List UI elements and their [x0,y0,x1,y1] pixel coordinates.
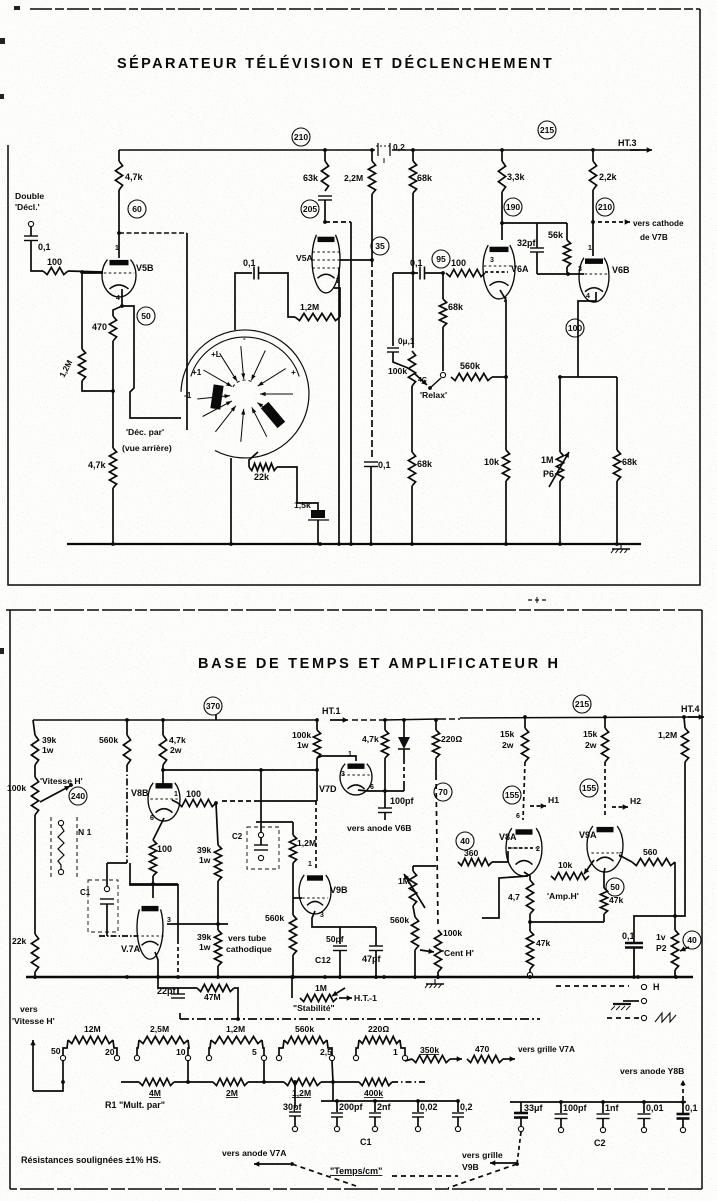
wire 4,7k down [384,758,386,791]
node cathode V5B [120,304,124,308]
label C1 bank [360,1137,372,1147]
wire V7A cathode to rail [155,952,158,977]
triode V7D [319,764,372,795]
wire 33uf stem [520,1102,522,1112]
resistor 10k cathode V6A [484,450,510,481]
pin 1 V8B [174,791,178,798]
wire V7D plate to 100k [317,756,356,761]
pin 6 V8A [516,813,520,820]
node 40 right [683,931,701,949]
diode crystal [398,737,410,749]
contact 0,2 [455,1126,460,1131]
wire 1,2M right leg [262,1040,264,1055]
junction ground rail x320 [318,542,322,546]
node 70 [434,783,452,801]
wire vers cathode V7B [598,219,630,224]
node 1nf C2 [601,1100,605,1104]
resistor 39k 1w left [31,735,56,765]
resistor 1,2M cathode V5A [295,302,340,321]
wire 47k to rail [529,969,531,973]
wire rail to 15k left [524,717,526,728]
wire to coupling cap [393,272,418,274]
wire 100 to anode V7A [152,876,154,898]
contact 10 mult [185,1055,190,1060]
label contact 1 [393,1047,398,1057]
label cathodique [226,944,272,954]
node grid V5B [80,270,84,274]
wire long vertical x351 [350,222,352,544]
label HT.3 [618,138,637,148]
pin 1 V6B [588,245,592,252]
triode V8B [131,783,180,821]
wire 4,7 to node [529,914,531,922]
wire long vertical x339 [338,268,340,544]
resistor 56k [548,230,571,267]
wire anode V8B line right [163,769,317,771]
wire 33uf to wiper [517,1132,521,1164]
wire 200pf stem [336,1101,338,1112]
arrow vers anode V8B [680,1080,685,1100]
wire ground rail panel 2 [26,976,693,979]
wire 200pf down [336,1117,338,1126]
capacitor 0,02 [412,1102,438,1117]
wire cathode to switch [122,306,181,418]
wire anode line V7A [129,883,178,885]
wire P6 to rail [559,481,561,544]
rotary switch contact bar bottom [261,402,285,428]
pin 3 V9B [320,912,324,919]
wire 47pf stem [375,927,377,946]
wire to C1 contact [106,863,108,886]
node rail 4,7k diode [383,718,387,722]
label vers grille V7A [518,1045,575,1054]
wire 100pf stub [384,813,386,821]
note resistances [21,1155,161,1165]
label H2 [630,796,641,806]
node 210 top [292,128,310,146]
node 35 [371,237,389,255]
wire 560k to anode line [130,863,178,885]
wire 360 to grid [492,851,508,862]
pin 3 V7A [167,917,171,924]
wire C2 1,2M top [256,821,293,823]
resistor 1,2M right [658,728,689,762]
contact open mult [134,1055,139,1060]
arrow HT.1 [330,717,348,722]
resistor 68k lower left-middle [408,452,433,486]
contact C1 [104,886,109,891]
wire diode column [403,720,405,737]
wire C1 down [106,904,108,936]
wire V9A cath to 47k [603,872,605,888]
wire cathode to 100pf [384,791,386,808]
wiper 10k [584,860,594,874]
wire 560k mid to rail [414,950,416,979]
capacitor 32pf [517,238,544,252]
label contact 20 [105,1047,115,1057]
wire grid to 560 [619,855,632,862]
wire 47k stub [529,922,531,931]
label C2 bank [594,1138,606,1148]
triode V8A [499,828,542,876]
resistor 4,7 cathode V8A [508,880,534,914]
label H1 [548,795,559,805]
capacitor 22pf [157,986,185,998]
wire 220 down [435,758,437,775]
pin 3 V6B [578,266,582,273]
label contact 50 [51,1046,61,1056]
wire cap to R1,2M horizontal [259,273,296,317]
arrow vers grille V9B [490,1160,517,1165]
node anode line right [315,768,319,772]
label Décl. [15,202,40,212]
junction ground rail x617 [615,542,619,546]
wire 0,2 down [457,1117,459,1126]
potentiometer 100k Relax [388,351,416,386]
wire 68k right top [616,377,618,450]
contact 1 mult [402,1055,407,1060]
switch position label +L [211,350,221,359]
wire 2nf down [374,1117,376,1126]
resistor 47k left [526,931,550,969]
wire 0,01 stem C2 [643,1102,645,1113]
wire 22pf stem [177,988,179,994]
node 50 branch [61,1080,65,1084]
wire 560k to rail2 [292,955,294,979]
node chain 3 [331,1080,335,1084]
node rail 2,2M [370,148,374,152]
resistor 68k upper middle [409,161,433,193]
potentiometer 1M [398,871,417,906]
label 4C wiper [418,377,427,384]
wire R1,2M to cathode column [82,381,113,391]
wire 0,01 down C2 [643,1119,645,1128]
resistor 4,7k 2w [159,735,186,765]
contact 5 mult [261,1055,266,1060]
wire grid node down dashed [371,260,373,458]
junction rail2 x35 [33,975,37,979]
contact 1nf C2 [600,1127,605,1132]
junction rail2 x325 [323,975,327,979]
wire 560k down [126,765,128,863]
label H terminal [653,982,660,992]
contact C2 top [258,832,263,837]
label vers cathode [633,219,684,228]
node 0,2 bus [456,1099,460,1103]
resistor 560k V9B [265,913,297,955]
wire 220Ω right leg [400,1040,405,1055]
wire relax wiper arm [430,378,441,388]
contact 200pf [334,1126,339,1131]
node rail diode [402,718,406,722]
node P6 top [558,375,562,379]
node 210 right [596,198,614,216]
wire 1nf down C2 [602,1119,604,1128]
wire rail to 15k right [604,717,606,728]
node 95 [441,271,445,275]
wire input terminal to cap [30,227,32,236]
node 0,1 C2 [681,1100,685,1104]
resistor 470 cathode V5B [92,316,117,341]
node P2 top [673,914,677,918]
junction rail2 x676 [674,975,678,979]
capacitor 2nf [369,1102,392,1117]
wire rail corner left [33,720,35,735]
wire chain start [121,1081,139,1083]
wiper 1M [404,874,425,908]
node anode V7A [151,882,155,886]
wire rail to R3,3k [501,150,503,161]
wire 30pf down [294,1116,296,1126]
wire 2nf stem [374,1101,376,1112]
node 215 [538,121,556,139]
node anode V5A [323,220,327,224]
wire 560k to cathode column [492,376,506,378]
rotary switch Déclenchement outer arcs [181,330,309,458]
node 30pf [293,1080,297,1084]
wire V6B cathode [578,292,596,377]
node rail 100k1w [315,718,319,722]
rotary switch contact bar left [210,384,223,409]
wire 68k to rail [411,486,413,544]
resistor 4,7k lower left [88,448,117,488]
node 0,1 rail [632,975,636,979]
wire rail to 560k [126,720,128,735]
node anode branch [259,768,263,772]
junction rail2 x293 [291,975,295,979]
resistor 560k relax [451,361,492,381]
resistor 68k relax branch [439,299,464,327]
wiper relax [428,386,432,390]
triode V9B [299,875,348,914]
capacitor 1nf C2 [597,1103,620,1119]
wire 47k right to bus [603,914,605,922]
wire rail to R2,2k [592,150,594,161]
pin 3 V7D [341,771,345,778]
capacitor 0,1 coupling V6A [410,258,425,280]
wire 0,02 down [417,1117,419,1126]
wire 39k to rail [217,966,219,977]
wire terminal 2 [623,1000,639,1002]
node anode V6A [500,221,504,225]
junction ground rail x351 [349,542,353,546]
node 95 circle [432,250,450,268]
label Vitesse H [40,776,83,786]
resistor 470 vers V7A [467,1044,503,1063]
wire 2,5 contact leg [332,1061,333,1082]
node rail 560k [125,718,129,722]
node 39k junction [216,922,220,926]
junction ground rail x231 [229,542,233,546]
wire grid link dashed [222,800,258,802]
wire 1,2M to 560k [292,863,294,915]
node 200pf bus [335,1099,339,1103]
capacitor 0,2 [452,1102,473,1117]
wire HT rail panel 1 [119,149,375,151]
pin 7 V5A [336,278,340,285]
wire V5B grid left [82,272,103,274]
node 47M HT-1 [236,1017,240,1021]
wire 100grid down [216,803,218,845]
resistor 4,7k V7D [362,730,389,758]
terminal input [28,221,33,226]
wire 1M top [413,865,436,867]
wire 15k to plate dashed [523,762,525,820]
wire R1,2M to V5A cathode [334,288,340,317]
wire HT.3 arrow [630,147,652,152]
arrow HT-1 [339,995,352,1000]
resistor 47M [197,984,234,1002]
wire 100pf stem C2 [560,1102,562,1113]
wire 39k to node [217,881,219,924]
pentode V5A [296,235,340,293]
node 50 [137,307,155,325]
wire temps dash 2 [448,1164,517,1188]
resistor 68k right [613,450,638,481]
wire HT-1 line [180,1018,540,1020]
pin 4 V6B [586,293,590,300]
node rail 220 [434,718,438,722]
wire HT-1 left tick [179,1013,181,1019]
wire chain 3 [321,1081,359,1083]
node chain 1 [186,1080,190,1084]
junction ground rail x506 [504,542,508,546]
wire 5 contact leg [263,1061,265,1082]
ground symbol panel 1 [611,544,630,553]
capacitor 33uf [514,1103,544,1118]
wire anode to 32pf [536,223,538,248]
wire 50 contact down [33,1061,63,1091]
node 240 [69,787,87,805]
resistor 3,3k anode V6A [498,161,525,192]
capacitor 0,1 output [622,931,643,948]
label vers anode V7A [222,1148,286,1158]
arrow vers anode V7A [254,1161,290,1166]
pin 1 V9B [308,861,312,868]
wiper dot vitesse [69,783,73,787]
potentiometer 1M stabilise [300,983,337,1002]
wire temps dash 1 [292,1164,356,1186]
resistor 2,2M [344,161,376,194]
wire 33uf down [520,1118,522,1127]
potentiometer 10k [551,860,589,880]
junction rail2 x178 [176,975,180,979]
label vue arrière [122,443,172,453]
wire 68k mid col down [442,273,444,299]
label vers anode V8B [620,1066,684,1076]
value 1,2M grid V5B [58,358,75,378]
switch position label + [291,368,296,377]
node grid V5A [370,258,374,262]
node cathode V7D [383,789,387,793]
node 40 left [456,832,474,850]
triode V7A [121,906,164,959]
wire 0u1 to pot [393,352,408,368]
junction rail2 x376 [374,975,378,979]
node 370 [204,697,222,715]
wire cap 0,1 to rail [370,467,372,545]
resistor 12M mult [68,1024,113,1044]
node 60 [128,200,146,218]
node 155 left [503,786,521,804]
wire switch to 22k [249,452,258,467]
junction rail2 x438 [436,975,440,979]
contact 2nf [372,1126,377,1131]
node anode V6B tap [591,220,595,224]
contact 20 mult [114,1055,119,1060]
wire rail to R63k [324,150,326,161]
wire R470 down [112,341,114,448]
wire C12 stem [339,927,341,944]
node 50 p2 [606,878,624,896]
label Double [15,191,44,201]
label vitesse H 2 [12,1016,55,1026]
wire 220 down dashed [436,775,438,925]
resistor 39k 1w lower [197,930,222,966]
capacitor 30pf [283,1102,303,1116]
wire 1 contact [405,1059,412,1061]
wire rail to 4,7k 2w [162,720,164,735]
wire V8B cathode down [153,818,164,840]
resistor 220 ohm [432,730,462,758]
wire 370 stem [215,715,217,720]
triode V6B [579,258,630,302]
ground symbol panel 2 [425,979,444,988]
wire V9B grid [293,897,302,899]
wire 100pf down C2 [560,1119,562,1128]
wire cathode bus [560,376,617,378]
switch position label - [243,334,246,343]
label V9B [462,1162,479,1172]
pin 2 V8A [536,846,540,853]
resistor 22k panel2 [12,934,39,972]
resistor 350k [412,1045,450,1063]
label 0u1 [398,337,415,346]
node anode V5B [117,231,121,235]
wire 47pf to rail [375,951,377,980]
triode V9A [579,826,623,872]
wire V9A cathode [604,868,605,872]
pin 3 V6A [490,257,494,264]
arrow HT.4 [688,714,704,719]
label contact 10 [176,1047,186,1057]
wire bus leg [332,1082,334,1101]
terminal 3 [641,1015,646,1020]
capacitor C2 box [232,827,279,869]
resistor 1,2M mult [211,1024,262,1044]
wire grid node down to R1,2M [81,272,83,349]
wire 1,2M top [292,822,294,835]
wire cap to V5A anode [324,200,326,222]
wire cathode bus [530,921,604,923]
contact 100pf C2 [558,1127,563,1132]
label vers tube [228,933,266,943]
wire cathode to R470 [113,306,122,316]
contact 2,5 mult [329,1055,334,1060]
sawtooth symbol [655,1013,676,1022]
terminal H [641,984,646,989]
resistor 100 grid V6A [446,258,485,277]
wire R2,2k to anode [592,190,594,256]
wire V9B anode dashed [315,801,317,868]
wire rail to R68k [412,150,414,161]
pin 6 V8B [150,815,154,822]
capacitor 0,01 C2 [638,1103,664,1119]
junction ground rail x339 [337,542,341,546]
label 100k vitesse [7,783,26,793]
pin 1 V5B [115,245,119,252]
junction rail2 x340 [338,975,342,979]
